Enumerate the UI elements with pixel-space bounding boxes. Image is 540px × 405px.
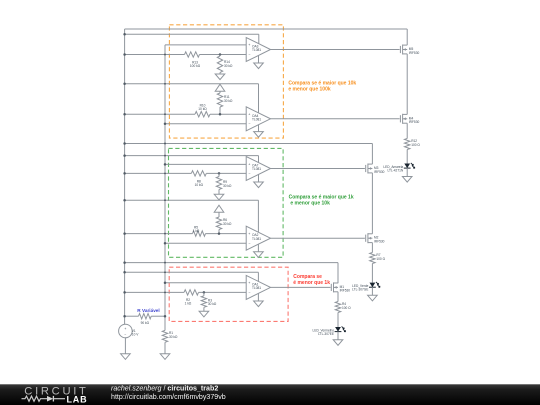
svg-text:30 kΩ: 30 kΩ (223, 184, 232, 188)
resistor R7 100 Ohm (370, 253, 375, 264)
transistor M4 (NMOS IRF530) (399, 115, 401, 122)
resistor R4 100 Ohm (335, 302, 340, 313)
svg-text:+: + (124, 327, 126, 331)
ground below R1 (164, 342, 166, 354)
svg-text:30 kΩ: 30 kΩ (223, 222, 232, 226)
svg-text:IRF530: IRF530 (409, 120, 420, 124)
transistor M2 (NMOS IRF530) (365, 235, 367, 242)
svg-text:100 Ω: 100 Ω (342, 306, 351, 310)
wire: M4 source to R12 (406, 123, 408, 138)
wire: OA4 output to M4 gate (271, 118, 400, 120)
svg-text:100 Ω: 100 Ω (376, 257, 385, 261)
wire: M5 source to M4 drain (406, 54, 408, 115)
transistor M5 (NMOS IRF530) (399, 46, 401, 53)
wire: +10V to R13 and node to OA3 - input (125, 54, 185, 56)
svg-text:30 kΩ: 30 kΩ (224, 64, 233, 68)
power +V arrow above R11 (215, 84, 225, 91)
svg-text:−: − (124, 332, 126, 336)
svg-text:LTL-4271N: LTL-4271N (387, 169, 403, 173)
resistor R14 30 kOhm (219, 55, 221, 57)
wire: R7 to green LED (371, 264, 373, 283)
wire: Vx to OA1 + input (165, 282, 246, 284)
resistor R10 10 kOhm (195, 112, 210, 117)
svg-text:−: − (248, 291, 250, 295)
resistor R6 30 kOhm (216, 217, 221, 229)
svg-text:+: + (248, 232, 250, 236)
svg-text:e menor que 10k: e menor que 10k (290, 201, 330, 207)
op-amp OA2 (bottom green) (246, 226, 270, 250)
wire: Vx to OA2 - input (165, 242, 246, 244)
op-amp OA7 (top green) (246, 157, 270, 181)
wire: supply rail to OA7 V+ (125, 155, 259, 157)
wire: supply rail to OA2 V+ (125, 199, 259, 201)
comparator group box (orange dashed) (169, 25, 283, 138)
svg-text:100 kΩ: 100 kΩ (190, 64, 201, 68)
node: R10/R11 divider node (219, 113, 222, 116)
resistor R2 1 kOhm (184, 290, 199, 295)
resistor R11 30 kOhm (217, 93, 222, 107)
svg-text:e menor que 100k: e menor que 100k (288, 87, 330, 93)
ground below R14 (219, 73, 221, 75)
wire: R4 to red LED (337, 313, 339, 328)
wire: supply rail to OA1 V+ (125, 271, 259, 273)
svg-text:10 kΩ: 10 kΩ (195, 183, 204, 187)
wire: +10V rail to M3 drain (125, 143, 373, 145)
svg-text:TL081: TL081 (252, 48, 261, 52)
svg-text:+: + (248, 163, 250, 167)
ground below yellow LED (406, 168, 408, 176)
svg-text:30 kΩ: 30 kΩ (224, 99, 233, 103)
comparator group box (green dashed) (169, 148, 284, 257)
wire: supply rail to OA4 V+ (125, 83, 259, 85)
node: R5/R6 divider node (218, 232, 221, 235)
svg-text:IRF530: IRF530 (340, 289, 351, 293)
svg-text:1 kΩ: 1 kΩ (193, 229, 200, 233)
svg-text:TL081: TL081 (252, 117, 261, 121)
resistor R8 10 kOhm (191, 171, 206, 176)
svg-text:30 kΩ: 30 kΩ (169, 335, 178, 339)
svg-text:100 Ω: 100 Ω (411, 143, 420, 147)
svg-text:30 kΩ: 30 kΩ (208, 302, 217, 306)
svg-text:é menor que 1k: é menor que 1k (293, 280, 330, 286)
op-amp OA1 (red box) (246, 275, 270, 299)
node: R13/R14 divider node (219, 53, 222, 56)
ground below OA4 (258, 125, 260, 132)
LED_Vermelho LTL-307EE (red LED) (335, 327, 341, 332)
svg-text:+: + (248, 281, 250, 285)
ground below OA3 (258, 56, 260, 64)
wire: +10V left bus (124, 29, 126, 324)
wire: +10V to R5 and node to OA2 + input (125, 233, 193, 235)
resistor R13 100 kOhm (185, 52, 200, 57)
ground below OA7 (258, 174, 260, 182)
wire: R Variavel branch from +10V bus (125, 315, 139, 317)
voltage source V1 10 V (119, 324, 133, 338)
wire: Vx to OA4 - input (165, 123, 246, 125)
wire: M3 source to M2 drain (371, 173, 373, 234)
ground below OA1 (257, 293, 259, 301)
wire: Vx to OA3 + input (165, 44, 246, 46)
wire: top +10V rail to M5 drain (125, 28, 408, 30)
wire: R12 to yellow LED (406, 150, 408, 164)
wire: +10V rail to M1 drain (125, 262, 338, 264)
svg-text:−: − (248, 241, 250, 245)
node: R8/R9 divider node (218, 172, 221, 175)
comparator group box (red dashed) (169, 267, 288, 321)
svg-text:TL081: TL081 (252, 286, 261, 290)
node: R2/R3 divider node (203, 291, 206, 294)
resistor R12 100 Ohm (405, 139, 410, 150)
op-amp OA3 (top orange) (246, 38, 270, 62)
svg-text:1 kΩ: 1 kΩ (185, 301, 192, 305)
wire: OA1 output to M1 gate (271, 286, 331, 288)
ground below red LED (337, 332, 339, 340)
svg-text:90 kΩ: 90 kΩ (141, 321, 150, 325)
svg-text:TL081: TL081 (252, 237, 261, 241)
svg-text:Compara se é maior que 10k: Compara se é maior que 10k (288, 81, 356, 87)
ground below green LED (371, 287, 373, 295)
svg-text:R Variável: R Variável (137, 308, 159, 313)
svg-text:IRF530: IRF530 (409, 51, 420, 55)
wire: M1 source to R4 (337, 292, 339, 302)
ground below R3 (203, 307, 205, 311)
svg-text:rachel.szenberg / circuitos_tr: rachel.szenberg / circuitos_trab2 (111, 385, 218, 393)
svg-text:Compara se: Compara se (293, 274, 322, 280)
svg-text:IRF530: IRF530 (374, 170, 385, 174)
svg-text:−: − (248, 122, 250, 126)
wire: OA2 output to M2 gate (271, 237, 365, 239)
svg-text:LTL-307GE: LTL-307GE (352, 288, 368, 292)
svg-text:10 kΩ: 10 kΩ (198, 107, 207, 111)
svg-text:+: + (248, 113, 250, 117)
resistor R9 30 kOhm (218, 173, 220, 176)
wire crossing blobs on Vx bus (164, 54, 166, 56)
svg-text:IRF530: IRF530 (374, 240, 385, 244)
node: R Variavel / R1 junction (164, 315, 167, 318)
ground below OA2 (257, 244, 259, 252)
wire: +10V to R10 and node to OA4 + input (125, 113, 195, 115)
resistor R1 30 kOhm (162, 330, 167, 342)
transistor M1 (NMOS IRF530) (330, 284, 332, 291)
resistor R Variavel 90 kOhm (139, 314, 152, 319)
LED_Verde LTL-307GE (green LED) (370, 283, 376, 288)
svg-text:TL081: TL081 (252, 167, 261, 171)
wire: +10V to R8 and node to OA7 - input (125, 172, 192, 174)
svg-text:http://circuitlab.com/cmf6mvby: http://circuitlab.com/cmf6mvby379vb (111, 393, 226, 401)
wire: M2 source to R7 (371, 243, 373, 253)
ground below R9 (218, 190, 220, 195)
wire: +10V to R2 and node to OA1 - input (125, 291, 184, 293)
transistor M3 (NMOS IRF530) (365, 165, 367, 172)
ground below V1 (124, 338, 126, 354)
wire: OA3 output to M5 gate (271, 49, 400, 51)
svg-text:−: − (248, 53, 250, 57)
svg-text:LAB: LAB (67, 395, 88, 405)
svg-text:Compara se é maior que 1k: Compara se é maior que 1k (289, 195, 354, 201)
wire: OA7 output to M3 gate (271, 168, 365, 170)
svg-text:LTL-307EE: LTL-307EE (318, 332, 334, 336)
svg-text:+: + (248, 43, 250, 47)
wire: measured-voltage bus (Vx) (164, 45, 166, 331)
wire: Vx to OA7 + input (165, 163, 246, 165)
resistor R5 1 kOhm (193, 231, 206, 236)
LED_Amarela LTL-4271N (yellow LED) (404, 164, 410, 169)
svg-text:10 V: 10 V (132, 332, 139, 336)
svg-text:−: − (248, 172, 250, 176)
power +V arrow above R6 (214, 205, 224, 212)
resistor R3 30 kOhm (203, 292, 205, 295)
op-amp OA4 (bottom orange) (246, 107, 270, 131)
wire: supply rail to OA3 V+ (125, 33, 259, 35)
